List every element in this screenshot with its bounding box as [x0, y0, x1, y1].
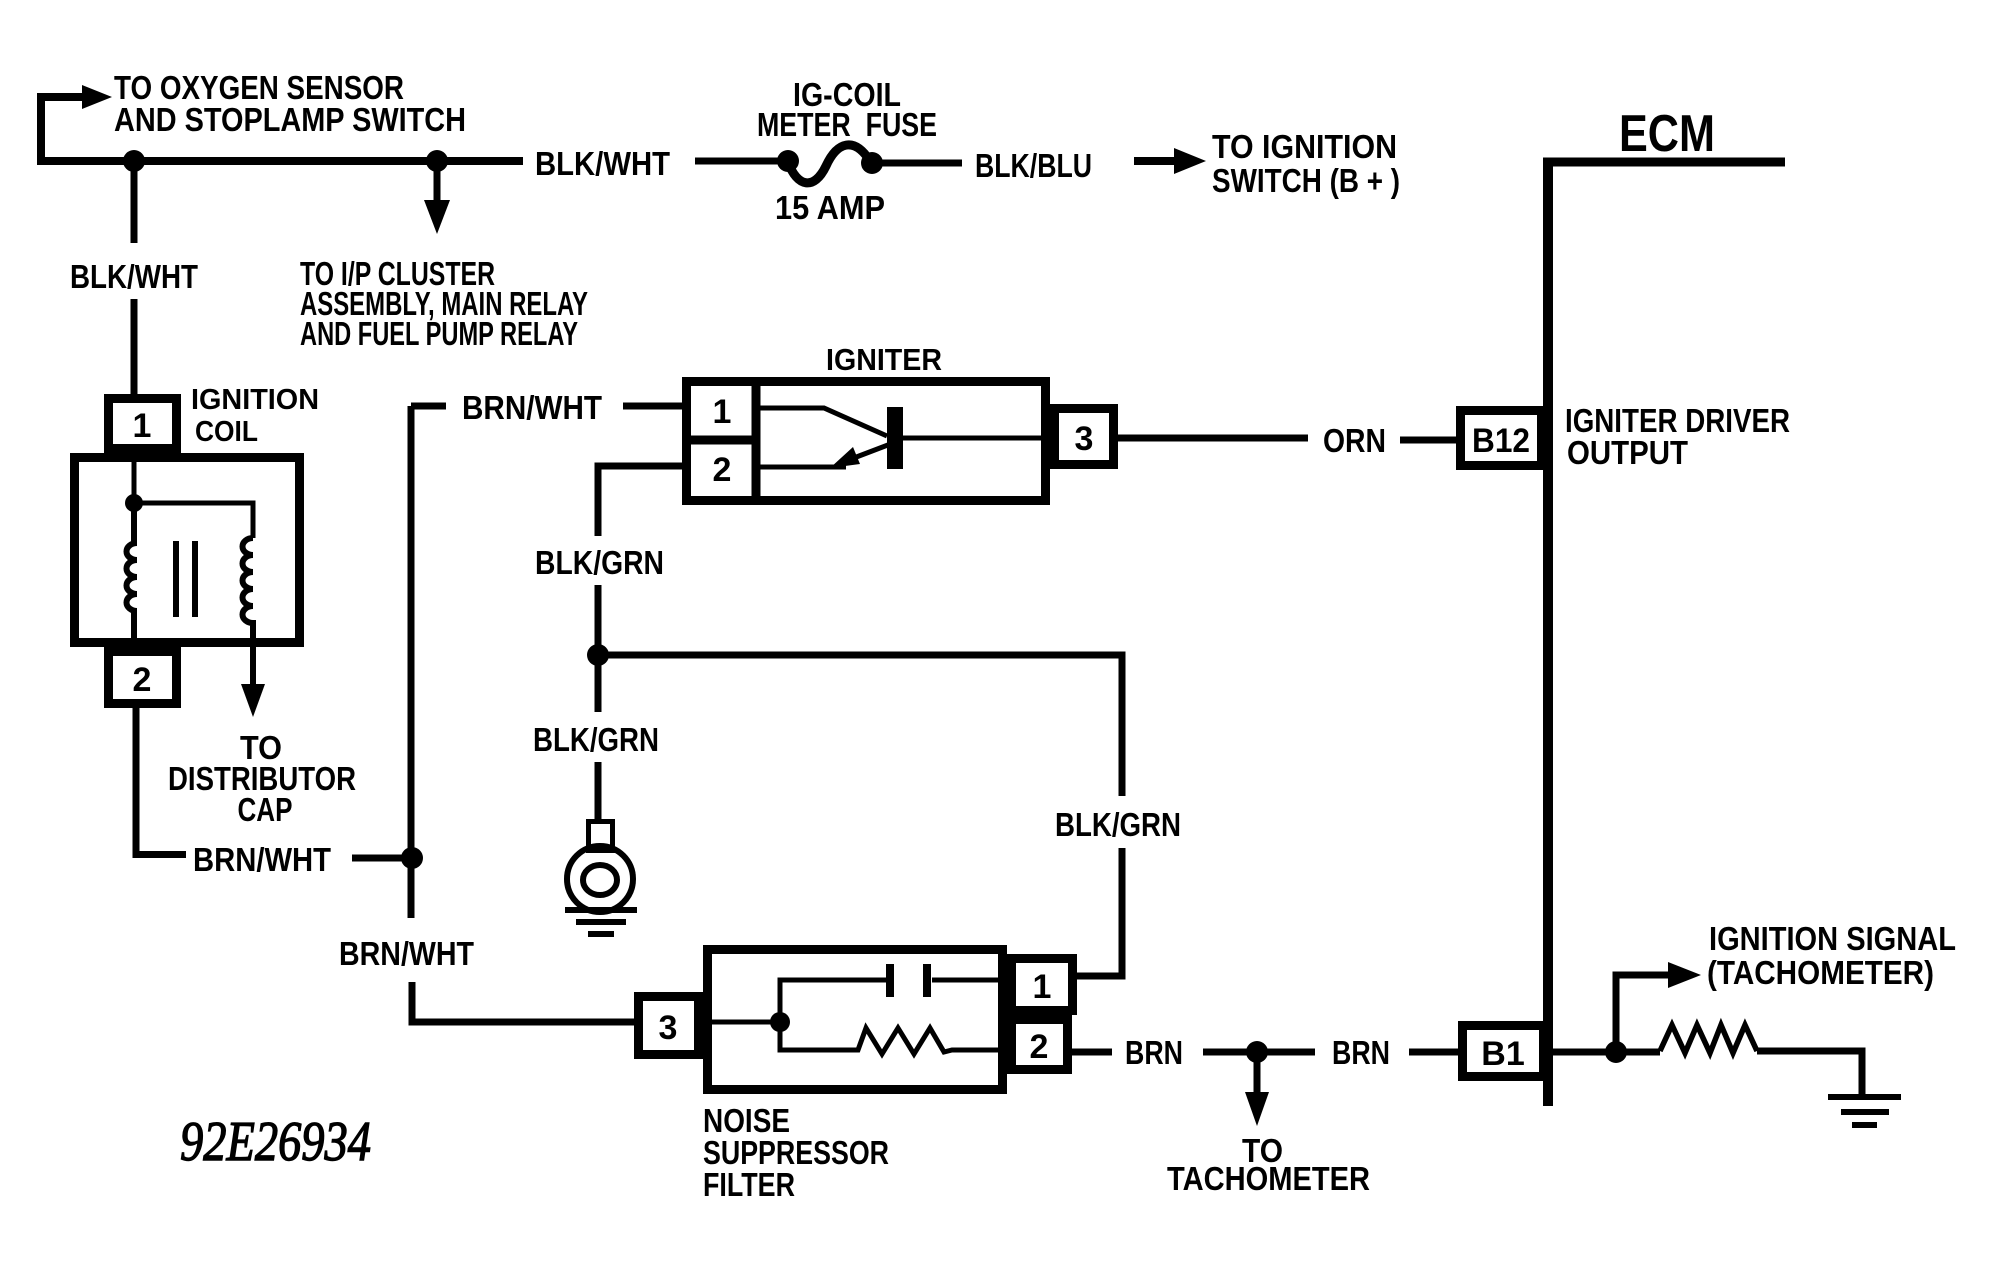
wire BRN to ECM B1	[1409, 1049, 1458, 1056]
terminal B12 box	[1461, 411, 1542, 466]
noise condenser C1	[567, 822, 633, 913]
svg-text:ORN: ORN	[1323, 422, 1386, 459]
svg-text:2: 2	[1030, 1028, 1049, 1066]
arrow to ignition switch	[1134, 148, 1206, 174]
wire BRN/WHT riser	[411, 406, 637, 1022]
node BLK/GRN junction	[587, 644, 609, 666]
wire pin1 to primary tap	[132, 449, 137, 503]
label TO OXYGEN SENSOR AND STOPLAMP SWITCH	[114, 69, 466, 138]
svg-text:AND FUEL PUMP RELAY: AND FUEL PUMP RELAY	[300, 315, 578, 352]
wire top-left riser BLK/WHT	[41, 97, 84, 165]
label IGNITION SIGNAL (TACHOMETER)	[1707, 920, 1956, 991]
transistor Q1 emitter arrowhead	[830, 447, 860, 468]
transistor Q1 base wire from pin 1	[756, 408, 887, 436]
label TO DISTRIBUTOR CAP	[168, 729, 356, 828]
svg-text:1: 1	[1033, 968, 1052, 1006]
secondary winding	[243, 538, 254, 647]
terminal B1 box	[1463, 1026, 1544, 1077]
ignition coil T1	[75, 399, 300, 704]
svg-text:IGNITION SIGNAL: IGNITION SIGNAL	[1709, 920, 1956, 957]
wire branch to tachometer	[1254, 1052, 1261, 1096]
svg-text:BRN: BRN	[1125, 1034, 1183, 1071]
noise suppressor filter FL1	[639, 950, 1073, 1090]
ignition coil body box	[75, 458, 300, 643]
svg-text:IGNITION: IGNITION	[191, 384, 319, 416]
igniter pin 3 box	[1055, 409, 1114, 465]
fuse IG-COIL METER FUSE 15 AMP	[777, 145, 883, 183]
filter pin 1 box	[1012, 959, 1073, 1011]
svg-text:TO IGNITION: TO IGNITION	[1212, 128, 1397, 165]
label IGNITER DRIVER OUTPUT	[1565, 402, 1790, 471]
ground (tachometer)	[1828, 1097, 1901, 1125]
svg-text:3: 3	[1075, 420, 1094, 458]
svg-text:BLK/GRN: BLK/GRN	[535, 544, 664, 581]
wire filter pin3 to node	[703, 1020, 780, 1025]
svg-text:BLK/WHT: BLK/WHT	[70, 258, 198, 295]
wire main BLK/WHT bus	[37, 157, 523, 165]
filter pin 2 box	[1012, 1020, 1068, 1070]
resistor R1 branch	[780, 1022, 1011, 1054]
wire ignition signal branch	[1616, 975, 1672, 1052]
svg-text:92E26934: 92E26934	[180, 1111, 371, 1173]
wire tap to secondary top	[134, 503, 253, 538]
wire igniter pin3 ORN to ECM B12	[1114, 438, 1456, 440]
svg-text:SWITCH (B + ): SWITCH (B + )	[1212, 162, 1400, 199]
node junction at I/P cluster branch	[426, 150, 448, 172]
svg-text:CAP: CAP	[238, 791, 293, 828]
wire bus to fuse	[695, 158, 783, 165]
wire branch down to I/P cluster	[434, 161, 441, 202]
ECM boundary line	[1543, 161, 1785, 1106]
svg-text:B1: B1	[1481, 1035, 1524, 1073]
transistor Q1 collector wire to pin 3	[903, 436, 1054, 441]
wire fuse to ignition switch	[872, 160, 962, 167]
svg-text:2: 2	[133, 661, 152, 699]
ignition coil pin 1 box	[109, 399, 177, 449]
wire resistor to ground	[1757, 1051, 1862, 1095]
transformer core	[176, 541, 195, 617]
wire igniter pin2 to BLK/GRN riser	[598, 466, 682, 655]
svg-text:TACHOMETER: TACHOMETER	[1167, 1160, 1370, 1197]
ground (condenser)	[565, 910, 637, 934]
svg-text:IGNITER: IGNITER	[826, 342, 942, 377]
svg-text:B12: B12	[1472, 422, 1530, 460]
svg-text:2: 2	[713, 451, 732, 489]
svg-text:BRN/WHT: BRN/WHT	[193, 841, 331, 878]
arrow to distributor cap	[241, 684, 265, 717]
transistor Q1 emitter wire	[756, 443, 893, 467]
wire coil pin2 elbow BRN/WHT	[136, 708, 412, 858]
svg-text:BRN/WHT: BRN/WHT	[339, 935, 474, 972]
svg-text:1: 1	[133, 407, 152, 445]
svg-text:1: 1	[713, 393, 732, 431]
svg-text:FILTER: FILTER	[703, 1166, 795, 1203]
wire B1 to internal node	[1553, 1049, 1660, 1056]
arrow to I/P cluster	[424, 200, 450, 234]
wire filter pin2 BRN	[1072, 1049, 1315, 1056]
transistor Q1 base bar	[887, 407, 903, 469]
primary winding	[127, 503, 138, 651]
label NOISE SUPPRESSOR FILTER	[703, 1102, 889, 1203]
node ignition signal junction	[1605, 1041, 1627, 1063]
wire BLK/GRN junction to filter pin1	[598, 655, 1122, 976]
svg-text:BLK/GRN: BLK/GRN	[533, 721, 659, 758]
svg-text:BLK/GRN: BLK/GRN	[1055, 806, 1181, 843]
label TO TACHOMETER	[1167, 1132, 1370, 1197]
wire BLK/GRN junction down to condenser	[595, 655, 602, 824]
arrow to tachometer	[1245, 1092, 1269, 1126]
label TO IGNITION SWITCH (B+)	[1212, 128, 1400, 199]
svg-text:COIL: COIL	[195, 416, 258, 448]
capacitor C2 branch	[780, 980, 1007, 1022]
node junction at ignition coil branch	[123, 150, 145, 172]
node filter internal junction	[770, 1012, 790, 1032]
svg-text:METER FUSE: METER FUSE	[757, 106, 937, 143]
svg-text:BRN/WHT: BRN/WHT	[462, 389, 602, 426]
svg-text:(TACHOMETER): (TACHOMETER)	[1707, 954, 1934, 991]
label TO I/P CLUSTER ASSEMBLY, MAIN RELAY AND FUEL PUMP RELAY	[300, 255, 588, 352]
svg-text:BLK/BLU: BLK/BLU	[975, 147, 1092, 184]
capacitor C2 plates	[886, 964, 894, 997]
label IG-COIL METER FUSE	[757, 76, 937, 143]
svg-text:OUTPUT: OUTPUT	[1567, 434, 1688, 471]
ignition coil pin 2 box	[109, 652, 177, 704]
label IGNITION COIL	[191, 384, 319, 448]
svg-text:BLK/WHT: BLK/WHT	[535, 145, 670, 182]
node BRN junction	[1246, 1041, 1268, 1063]
igniter pin partition	[686, 381, 756, 501]
svg-text:15 AMP: 15 AMP	[775, 189, 885, 226]
arrow to oxygen sensor	[82, 85, 112, 109]
wire branch down to ignition coil	[131, 161, 138, 394]
igniter body box	[687, 382, 1046, 501]
arrow ignition signal	[1668, 962, 1701, 988]
filter body box	[708, 950, 1003, 1090]
svg-text:ECM: ECM	[1619, 105, 1715, 163]
node primary tap junction	[125, 494, 143, 512]
igniter U1	[686, 381, 1114, 501]
wire secondary to distributor	[250, 647, 256, 690]
svg-text:AND STOPLAMP SWITCH: AND STOPLAMP SWITCH	[114, 101, 466, 138]
svg-text:BRN: BRN	[1332, 1034, 1390, 1071]
resistor R2 (tachometer shunt)	[1660, 1025, 1757, 1053]
svg-text:3: 3	[659, 1009, 678, 1047]
wire riser corner to igniter pin1	[411, 403, 682, 410]
node BRN/WHT junction	[401, 847, 423, 869]
filter pin 3 box	[639, 997, 699, 1055]
